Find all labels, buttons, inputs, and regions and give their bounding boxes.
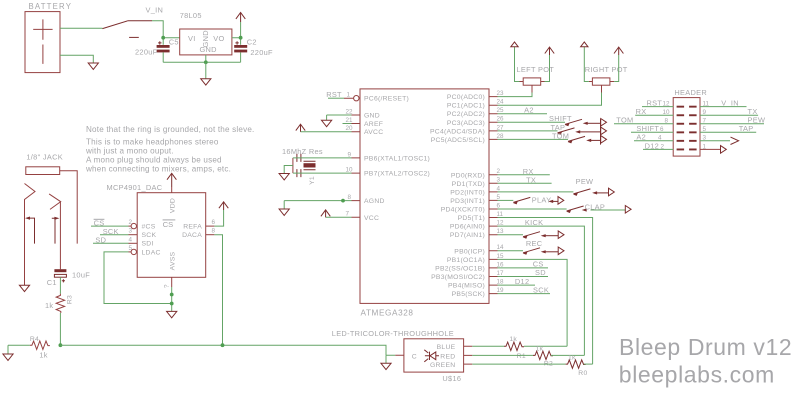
junction VI node (161, 36, 165, 40)
svg-text:1k: 1k (39, 350, 47, 359)
arrow play end (558, 197, 564, 205)
svg-text:PB5(SCK): PB5(SCK) (452, 291, 485, 298)
svg-text:?: ? (164, 284, 171, 288)
battery B1 (25, 12, 60, 73)
wire C5 to bottom rail (162, 52, 164, 62)
wire pin 12 down to red resistor (498, 226, 585, 355)
svg-text:BLUE: BLUE (437, 344, 456, 351)
svg-text:R4: R4 (30, 336, 39, 343)
svg-text:16: 16 (497, 261, 505, 268)
svg-text:SCK: SCK (533, 285, 549, 294)
LED pin stubs (395, 346, 472, 364)
svg-text:C1: C1 (47, 278, 57, 287)
svg-text:AVSS: AVSS (170, 251, 177, 270)
wire AVSS to ground (171, 287, 173, 311)
arrow header pin 1 (721, 146, 727, 154)
wire pin 6 to clap switch (498, 208, 567, 210)
regulator IC1 78L05 (180, 29, 232, 55)
svg-text:VO: VO (213, 34, 224, 43)
svg-text:4: 4 (497, 185, 501, 192)
svg-text:PC1(ADC1): PC1(ADC1) (447, 103, 485, 110)
wire TOM to header pin 8 (614, 123, 673, 125)
ground R4 left (3, 354, 13, 360)
wire D12 to header pin 2 (643, 148, 673, 150)
svg-text:PC5(ADC5/SCL): PC5(ADC5/SCL) (431, 137, 485, 144)
bus arrow shift (601, 119, 607, 127)
svg-text:PD0(RXD): PD0(RXD) (451, 172, 485, 179)
svg-text:V_IN: V_IN (146, 6, 164, 15)
svg-text:12: 12 (497, 220, 505, 227)
arrow kick end (558, 231, 564, 239)
wire SD to DAC pin 4 (93, 242, 129, 244)
svg-text:5: 5 (497, 194, 501, 201)
bus arrow tom (601, 136, 607, 144)
svg-text:AREF: AREF (364, 121, 383, 128)
svg-text:PD1(TXD): PD1(TXD) (452, 181, 485, 188)
svg-text:SCK: SCK (142, 232, 157, 239)
svg-text:PC6(/RESET): PC6(/RESET) (364, 96, 409, 103)
svg-text:GND: GND (364, 113, 380, 120)
wire rail to ground (205, 62, 207, 78)
svg-text:A mono plug should always be u: A mono plug should always be used (86, 156, 222, 165)
ground resonator (279, 174, 289, 180)
bus arrow tap (601, 127, 607, 135)
ground supply rail (201, 79, 211, 85)
MCU U1 left pin names (364, 96, 430, 222)
wire pin 24 to right pot wiper (498, 93, 602, 106)
wire CS to DAC pin 2 (91, 225, 129, 227)
jack J1 ring terminal arrow (52, 217, 60, 244)
junction AGND (341, 199, 345, 203)
wire pin 13 to kick switch (498, 234, 524, 236)
MCU U1 right pin numbers (497, 90, 505, 294)
junction AVSS lower (170, 302, 174, 306)
wire header pin 3 (700, 140, 730, 142)
power arrow right pot terminal 2 (614, 47, 623, 55)
header SV1 pin pads (677, 106, 697, 151)
svg-text:PC3(ADC3): PC3(ADC3) (447, 120, 485, 127)
svg-text:C5: C5 (169, 38, 179, 47)
svg-text:14: 14 (497, 244, 505, 251)
capacitor C5 (157, 41, 170, 52)
wire header pin 7 PEW (700, 123, 764, 125)
wire pin 27 to tap switch (498, 130, 558, 132)
svg-text:C2: C2 (247, 38, 257, 47)
svg-text:2: 2 (128, 219, 132, 226)
svg-text:D12: D12 (515, 277, 529, 286)
svg-text:21: 21 (345, 117, 353, 124)
wire LED red to R2 (472, 354, 533, 356)
switch S1 power (103, 21, 153, 38)
ground battery minus (88, 63, 98, 69)
svg-text:2: 2 (497, 168, 501, 175)
svg-text:bleeplabs.com: bleeplabs.com (619, 361, 775, 387)
svg-text:RIGHT POT: RIGHT POT (585, 65, 628, 74)
wire header pin 5 TAP (700, 131, 756, 133)
wire pin 2 RX (498, 174, 550, 176)
svg-text:16MhZ Res: 16MhZ Res (282, 147, 323, 156)
power arrow REFA (219, 202, 228, 210)
wire C1 to R3 (59, 277, 61, 294)
svg-text:9: 9 (347, 151, 351, 158)
svg-text:220uF: 220uF (135, 48, 158, 57)
svg-text:PD5(T1): PD5(T1) (458, 215, 485, 222)
power arrow left pot terminal 1 (511, 42, 518, 47)
svg-text:BATTERY: BATTERY (29, 2, 73, 11)
ground LED cathode (381, 363, 391, 369)
svg-text:7: 7 (345, 211, 349, 218)
potentiometer left pot (515, 47, 550, 85)
svg-text:LEFT POT: LEFT POT (517, 65, 555, 74)
wire VI node to 78L05 (163, 37, 180, 39)
wire C2 to rail (240, 52, 242, 62)
svg-text:#CS: #CS (142, 224, 156, 231)
svg-text:25: 25 (497, 107, 505, 114)
svg-text:24: 24 (497, 99, 505, 106)
junction AVSS upper (170, 293, 174, 297)
svg-text:AGND: AGND (364, 198, 385, 205)
svg-text:5: 5 (128, 245, 132, 252)
wire pin 21 AREF stub (343, 123, 352, 125)
wire 78L05 VO to C2 node (232, 22, 241, 45)
wire LED green to R0 (472, 363, 565, 365)
switch KICK (523, 232, 558, 239)
wire RST to pin 1 (328, 97, 344, 99)
wire 78L05 GND to rail (205, 55, 207, 62)
svg-text:AVCC: AVCC (364, 129, 383, 136)
jack J1 tip contact (25, 184, 36, 286)
svg-text:PEW: PEW (576, 177, 594, 186)
power arrow left pot terminal 2 (545, 47, 554, 55)
wire pin 26 to shift switch (498, 121, 566, 123)
power arrow right pot terminal 1 (581, 42, 588, 47)
svg-text:26: 26 (497, 116, 505, 123)
svg-text:1k: 1k (568, 355, 576, 362)
svg-text:1k: 1k (536, 346, 544, 353)
wire DACA down to output node (214, 235, 222, 346)
svg-text:11: 11 (497, 211, 504, 218)
svg-text:8: 8 (347, 194, 351, 201)
arrow clap end (625, 206, 631, 214)
wire pin 22 GND to ground (327, 115, 352, 120)
switch REC (523, 248, 558, 255)
power arrow AVCC (296, 124, 305, 132)
svg-text:PB7(XTAL2/TOSC2): PB7(XTAL2/TOSC2) (364, 171, 430, 178)
svg-text:MCP4901_DAC: MCP4901_DAC (107, 183, 163, 192)
wire header pin 11 V_IN (700, 106, 747, 108)
wire pin 16 CS (498, 267, 549, 269)
LED U$16 (404, 339, 464, 372)
svg-text:220uF: 220uF (250, 48, 273, 57)
svg-text:27: 27 (497, 124, 505, 131)
svg-text:CS: CS (163, 220, 174, 229)
wire switch bus vertical (600, 119, 602, 144)
svg-text:VDD: VDD (170, 198, 177, 213)
svg-text:U$16: U$16 (442, 374, 461, 383)
svg-text:10: 10 (345, 167, 353, 174)
wire resonator to ground (284, 166, 293, 174)
wire pin 20 AVCC to power arrow (301, 131, 352, 133)
svg-text:R1: R1 (517, 353, 526, 360)
wire header pin 1 (700, 148, 720, 150)
svg-text:PB1(OC1A): PB1(OC1A) (447, 257, 485, 264)
svg-text:4: 4 (128, 236, 132, 243)
wire pin 14 to rec switch (498, 250, 524, 252)
svg-text:R0: R0 (578, 370, 587, 377)
svg-text:GND: GND (200, 45, 217, 54)
wire AGND net from DAC ground to pin 8 (284, 201, 351, 209)
MCU U1 ATMEGA328 (360, 89, 489, 304)
resistor R3 (56, 294, 64, 313)
header SV1 (673, 98, 700, 157)
wire ground to R4 (8, 345, 30, 354)
wire REFA to power arrow (214, 210, 223, 226)
wire pin 28 to tom switch (498, 138, 569, 140)
svg-text:RED: RED (440, 353, 455, 360)
wire pin 5 to play switch (498, 199, 514, 201)
svg-text:PC0(ADC0): PC0(ADC0) (447, 94, 485, 101)
capacitor C1 (54, 269, 66, 282)
wire RX to header pin 10 (635, 114, 673, 116)
svg-text:18: 18 (497, 279, 505, 286)
jack J1 ring contact (49, 194, 61, 269)
wire LED blue to R1 (472, 345, 504, 347)
svg-text:with just a mono ouput.: with just a mono ouput. (85, 147, 174, 156)
svg-text:PB6(XTAL1/TOSC1): PB6(XTAL1/TOSC1) (364, 155, 430, 162)
wire pin 17 SD (498, 276, 549, 278)
svg-text:17: 17 (497, 270, 505, 277)
svg-text:SDI: SDI (142, 241, 154, 248)
svg-text:This is to make headphones ste: This is to make headphones stereo (86, 138, 219, 147)
wire LDAC loop to AVSS (104, 252, 172, 304)
wire pin 23 to left pot wiper (498, 93, 533, 97)
arrow rec end (558, 247, 564, 255)
wire pin 19 SCK (498, 293, 551, 295)
wire R2 to pin12 vertical (551, 354, 584, 356)
power arrow MCU VCC (321, 210, 330, 217)
wire A2 to header pin 4 (634, 140, 673, 142)
svg-text:HEADER: HEADER (674, 88, 707, 97)
switch PEW (573, 189, 608, 196)
MCU U1 pin 1 inversion circle (354, 96, 359, 101)
svg-text:8: 8 (212, 228, 216, 235)
resistor R4 (30, 341, 50, 349)
svg-text:Y1: Y1 (309, 176, 316, 185)
svg-text:VCC: VCC (364, 215, 379, 222)
svg-text:VI: VI (188, 34, 196, 43)
wire bottom rail (163, 61, 240, 63)
svg-text:PB2(SS/OC1B): PB2(SS/OC1B) (435, 265, 485, 272)
junction output node (59, 343, 63, 347)
ground DAC AVSS (167, 311, 177, 317)
svg-text:3: 3 (128, 228, 132, 235)
svg-text:PD7(AIN1): PD7(AIN1) (450, 232, 485, 239)
wire header pin 9 TX (700, 114, 758, 116)
svg-text:28: 28 (497, 133, 505, 140)
jack J1 tip terminal arrow (25, 217, 35, 244)
svg-text:3: 3 (497, 177, 501, 184)
svg-text:PD2(INT0): PD2(INT0) (450, 189, 485, 196)
DAC U2 pin stubs and inversion circles (129, 187, 215, 287)
svg-text:PC2(ADC2): PC2(ADC2) (447, 111, 485, 118)
switch SHIFT (565, 119, 601, 126)
svg-text:LDAC: LDAC (142, 249, 161, 256)
junction rail center (204, 60, 208, 64)
svg-text:6: 6 (212, 219, 216, 226)
wire RST to header pin 12 (642, 106, 673, 108)
wire LED cathode to ground (386, 355, 395, 363)
power arrow DAC VDD (167, 173, 176, 187)
switch PLAY (513, 197, 558, 204)
MCU U1 right pin names (430, 94, 485, 298)
junction VO node (239, 36, 243, 40)
arrow header pin 3 (731, 137, 739, 144)
svg-text:PLAY: PLAY (532, 196, 552, 205)
svg-text:22: 22 (345, 108, 353, 115)
ground jack tip (19, 285, 29, 291)
svg-text:DACA: DACA (182, 232, 202, 239)
svg-text:1k: 1k (509, 336, 517, 343)
wire SCK to DAC pin 3 (100, 234, 129, 236)
svg-text:13: 13 (497, 228, 505, 235)
svg-text:PB0(ICP): PB0(ICP) (454, 248, 485, 255)
power arrow VCC output (236, 13, 245, 23)
capacitor C2 (234, 41, 247, 52)
svg-text:1: 1 (346, 92, 350, 99)
resonator Y1 (293, 154, 316, 177)
svg-text:1/8" JACK: 1/8" JACK (26, 153, 63, 162)
MCU U1 left pin stubs (344, 98, 360, 217)
switch TOM (568, 136, 601, 143)
MCU U1 right pin stubs (489, 97, 498, 294)
wire pin 7 VCC to power arrow (326, 216, 352, 218)
wire SHIFT to header pin 6 (631, 131, 673, 133)
wire R3 to output node (59, 313, 61, 345)
wire battery plus to switch (60, 27, 103, 29)
wire pin 3 TX (498, 182, 552, 184)
wire pin 18 D12 (498, 284, 536, 286)
svg-text:C: C (412, 353, 417, 360)
junction DACA at output wire (221, 343, 225, 347)
svg-text:PC4(ADC4/SDA): PC4(ADC4/SDA) (430, 128, 485, 135)
ground AGND net (279, 209, 289, 215)
svg-text:1k: 1k (45, 301, 53, 310)
svg-text:ATMEGA328: ATMEGA328 (361, 308, 414, 317)
DAC U2 MCP4901 (137, 193, 206, 278)
jack J1 sleeve (26, 167, 77, 244)
svg-text:15: 15 (497, 253, 505, 260)
svg-text:GREEN: GREEN (430, 362, 455, 369)
wire R0 to pin11 vertical (584, 363, 593, 365)
svg-text:19: 19 (497, 287, 505, 294)
wire pin 15 down to blue resistor (498, 259, 568, 346)
svg-text:23: 23 (497, 90, 505, 97)
wire clap to arrow (591, 209, 626, 211)
svg-text:LED-TRICOLOR-THROUGHHOLE: LED-TRICOLOR-THROUGHHOLE (332, 329, 454, 338)
svg-text:Note that the ring is grounded: Note that the ring is grounded, not the … (86, 125, 254, 134)
svg-text:PB4(MISO): PB4(MISO) (448, 283, 485, 290)
arrow pew end (609, 188, 615, 196)
svg-text:SD: SD (535, 268, 546, 277)
wire switch to VI node (152, 21, 163, 45)
wire pin 4 to pew switch (498, 191, 574, 193)
resistor R0 (566, 360, 586, 368)
wire output node to LED cathode net (60, 345, 386, 355)
MCU U1 left pin numbers (345, 92, 353, 218)
resistor R2 (533, 351, 553, 359)
ground MCU GND pin (322, 120, 332, 126)
svg-text:PB3(MOSI/OC2): PB3(MOSI/OC2) (431, 274, 485, 281)
svg-text:A2: A2 (524, 105, 534, 114)
svg-text:PD3(INT1): PD3(INT1) (450, 198, 485, 205)
svg-text:when connecting to mixers, amp: when connecting to mixers, amps, etc. (85, 165, 231, 174)
note annotation (85, 125, 254, 174)
svg-text:20: 20 (345, 125, 353, 132)
svg-text:REC: REC (526, 239, 543, 248)
resistor R1 (504, 342, 524, 350)
DAC U2 pin numbers (128, 219, 132, 252)
svg-text:Bleep Drum v12: Bleep Drum v12 (619, 334, 792, 360)
svg-text:78L05: 78L05 (180, 11, 202, 20)
svg-text:PD4(XCK/T0): PD4(XCK/T0) (441, 207, 485, 214)
wire pin 11 down to green resistor (498, 218, 593, 365)
LED diode symbol (424, 350, 439, 362)
switch TAP (557, 128, 600, 135)
svg-text:PD6(AIN0): PD6(AIN0) (450, 224, 485, 231)
wire XTAL2 row to pin 10 (293, 172, 352, 174)
net label CS with overbar (94, 218, 105, 227)
svg-text:10uF: 10uF (72, 270, 90, 279)
switch CLAP (566, 206, 586, 213)
svg-text:R3: R3 (66, 295, 73, 304)
wire R1 to pin15 vertical (524, 345, 567, 347)
svg-text:6: 6 (497, 202, 501, 209)
potentiometer right pot (584, 47, 618, 85)
svg-text:REFA: REFA (183, 224, 202, 231)
wire pin 25 A2 (498, 113, 548, 115)
wire battery minus to ground (60, 55, 93, 63)
wire XTAL1 row to pin 9 (293, 157, 352, 159)
